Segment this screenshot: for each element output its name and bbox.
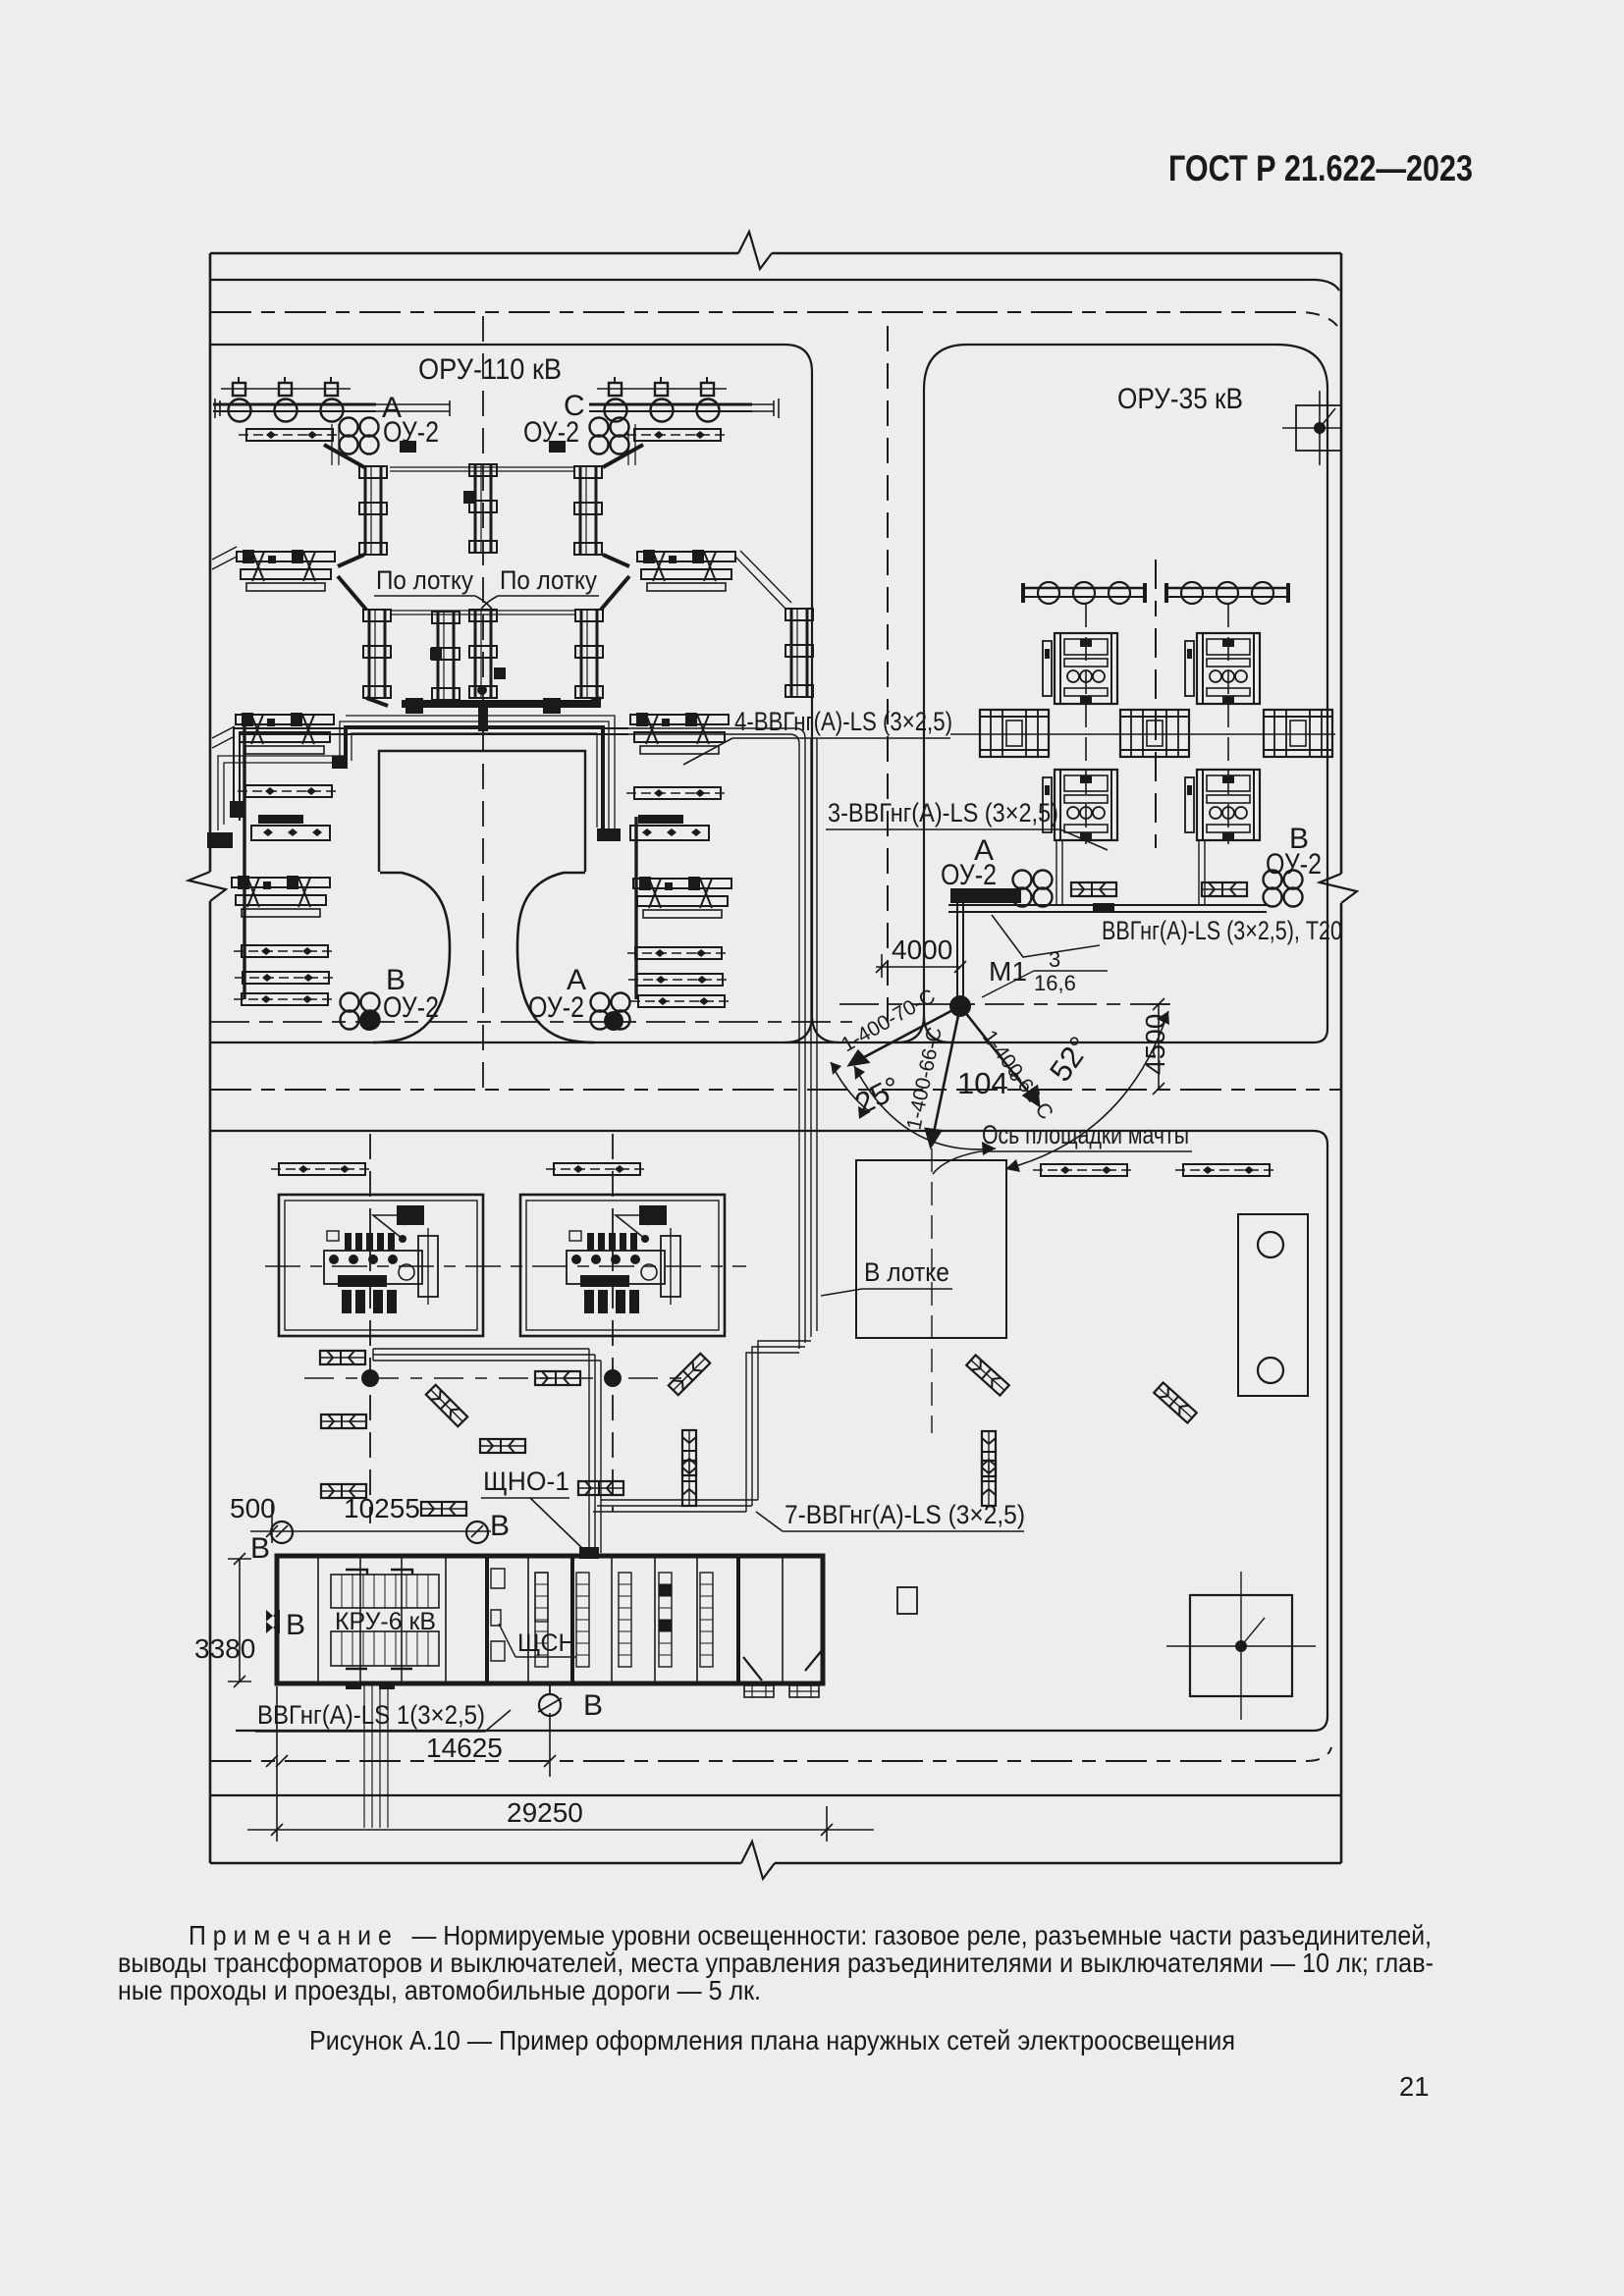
left black bar row [251, 815, 330, 840]
cable rack strip 5 [700, 1573, 713, 1667]
bottom road centerline [210, 1747, 1331, 1761]
cable rack strip 4 black cells [659, 1573, 672, 1667]
cable bundle jog to west [746, 1341, 811, 1512]
site boundary frame right [1340, 253, 1343, 1863]
luminaire OU-2 35kV right [1264, 871, 1303, 907]
luminaire axis line OU-2 row [210, 1021, 852, 1023]
tower far right column a [785, 609, 813, 697]
cable bundle to building [593, 1500, 758, 1512]
disconnector cluster upper-right [637, 550, 735, 591]
dimension 14625 ticks [266, 1713, 556, 1777]
35kV middle box east [1264, 710, 1332, 757]
right black bar row [630, 815, 709, 840]
bar above bay 2 [546, 1163, 648, 1175]
bottom road north edge [236, 1716, 1327, 1731]
cable riser B mid [466, 1522, 488, 1543]
wire cluster to tower2 left [338, 576, 366, 610]
transformer bay 1 [279, 1195, 483, 1336]
По лотку underline left [374, 596, 493, 611]
ЩНО-1 cabinet [579, 1547, 599, 1559]
riser B bottom [539, 1694, 561, 1716]
cable rack strip 2 [576, 1573, 589, 1667]
right column cluster row [633, 877, 731, 918]
wire frame tie lower-left [212, 726, 235, 748]
cable around pad thin tracks [340, 716, 615, 831]
luminaire OU-2 cluster right [590, 418, 629, 454]
junction dot bay1 [361, 1369, 379, 1387]
portal footing with circles [1238, 1214, 1308, 1396]
break mark bottom [741, 1842, 775, 1879]
foundation square with crosshair [1166, 1572, 1316, 1720]
riser tick bottom [538, 1682, 562, 1712]
luminaire vert d3 [682, 1461, 696, 1506]
disconnector cluster lower-left [236, 713, 334, 754]
disconnector cluster lower-right [630, 713, 729, 754]
svg-text:29250: 29250 [507, 1797, 583, 1828]
tower row2 right [575, 610, 603, 698]
cable tray below bays [373, 1349, 601, 1361]
building thick walls [487, 1556, 738, 1683]
35kV feeder axis right [1227, 604, 1229, 844]
svg-text:Ось площадки мачты: Ось площадки мачты [982, 1120, 1189, 1149]
trench junction box 2 [543, 698, 561, 714]
tower row1 center [469, 464, 497, 553]
luminaire OU-2 cluster left [340, 418, 379, 454]
cable 7-VVG underline and leader [756, 1512, 1024, 1531]
35kV trench drops [1056, 840, 1205, 905]
35kV breaker A2 [1043, 770, 1117, 840]
bar above bay 1 [271, 1163, 373, 1175]
junction dash line [304, 1377, 687, 1379]
luminaire h e [480, 1439, 525, 1453]
VVG T20 leader [992, 915, 1100, 957]
KRU switchgear row bottom [331, 1631, 439, 1669]
35kV middle box center [1120, 710, 1189, 757]
mast trench riser [957, 903, 963, 999]
wire frame tie upper-right [735, 551, 791, 609]
portal tie wires row1 [390, 467, 573, 471]
luminaire OU-2 35kV left [1013, 871, 1053, 907]
left cable approach lines [218, 756, 346, 830]
left trench blob [207, 832, 233, 848]
svg-text:Рисунок А.10 — Пример оформлен: Рисунок А.10 — Пример оформления плана н… [309, 2025, 1235, 2056]
mast M1 dot [949, 995, 971, 1017]
svg-text:ОУ-2: ОУ-2 [528, 991, 584, 1024]
bar below 35kV b [1175, 1164, 1277, 1176]
right column bar row2 [627, 947, 730, 959]
main cable trench bus [402, 700, 601, 708]
tower row2 outer-left [363, 610, 391, 698]
trench bar east b [1202, 882, 1247, 896]
cable VVG 1 underline leader [255, 1710, 511, 1732]
busbar left end hash [210, 399, 220, 418]
transformer bay 2 [520, 1195, 725, 1336]
svg-text:По лотку: По лотку [376, 565, 473, 595]
vertical road west edge [785, 372, 839, 1042]
junction small center [430, 648, 442, 660]
junction square center tower [463, 491, 476, 504]
break mark top [738, 232, 772, 269]
bay axis 1 [369, 1134, 371, 1523]
vertical road east edge [896, 390, 951, 1042]
road pinch arc left [373, 873, 450, 1042]
35kV breaker A1 [1043, 633, 1117, 704]
floodlight arrow 1-400-62 [960, 1006, 1039, 1105]
trench bar east a [1071, 882, 1116, 896]
svg-text:КРУ-6 кВ: КРУ-6 кВ [335, 1608, 436, 1635]
small cabinet symbol [897, 1587, 917, 1614]
building outline [277, 1556, 823, 1683]
cable trunk across to east [628, 728, 805, 744]
svg-text:4500: 4500 [1140, 1014, 1170, 1075]
svg-text:ВВГнг(А)-LS 1(3×2,5): ВВГнг(А)-LS 1(3×2,5) [257, 1700, 485, 1730]
transformer T2 [567, 1205, 680, 1313]
site boundary frame top [210, 252, 1341, 255]
middle road centerline [210, 1089, 1341, 1091]
svg-text:По лотку: По лотку [500, 565, 597, 595]
vertical road centerline [887, 326, 889, 1031]
svg-text:ОРУ-35 кВ: ОРУ-35 кВ [1117, 383, 1243, 415]
svg-text:В: В [490, 1510, 510, 1542]
top road edge line [210, 280, 1339, 291]
riser B at building wall [266, 1610, 280, 1633]
top road centerline [210, 312, 1337, 326]
cable 4-VVG underline and leader [683, 738, 950, 765]
35kV line through middle row [950, 733, 1335, 735]
wire frame tie upper-left [212, 547, 237, 569]
svg-text:ГОСТ Р 21.622—2023: ГОСТ Р 21.622—2023 [1168, 148, 1473, 188]
luminaire vert e2 [982, 1461, 996, 1506]
trench connector black [1093, 903, 1114, 913]
svg-text:21: 21 [1399, 2071, 1430, 2102]
left column bar row3 [235, 972, 337, 984]
wire bus drop left [332, 424, 635, 465]
floodlight arrow 1-400-70 [849, 1006, 960, 1065]
svg-text:ОУ-2: ОУ-2 [941, 859, 997, 891]
bar below 35kV a [1033, 1164, 1135, 1176]
svg-text:4-ВВГнг(А)-LS (3×2,5): 4-ВВГнг(А)-LS (3×2,5) [734, 707, 952, 736]
35kV bus right [1166, 582, 1288, 604]
trench junction box 1 [406, 698, 423, 714]
building partitions [318, 1556, 783, 1683]
site boundary frame bottom [210, 1862, 1341, 1865]
svg-text:3380: 3380 [194, 1633, 255, 1664]
portal tie wires row2 [390, 611, 575, 614]
angle arc 104 [854, 1066, 996, 1149]
bottom road south edge [210, 1794, 1341, 1796]
V lotke underline leader [821, 1289, 952, 1296]
svg-text:ОУ-2: ОУ-2 [1266, 848, 1322, 881]
svg-text:М1: М1 [989, 956, 1027, 987]
tower row2 mid-left [432, 612, 460, 700]
disconnector cluster upper-left [237, 550, 335, 591]
junction dot bay2 [604, 1369, 622, 1387]
luminaire h c [321, 1415, 366, 1428]
pad marks under building left [346, 1683, 395, 1689]
transformer T1 [324, 1205, 438, 1313]
right feeder cable [634, 817, 637, 999]
ЩСН cabinets [491, 1569, 505, 1661]
left column bar row4 [234, 993, 336, 1005]
svg-text:П р и м е ч а н и е — Нормир: П р и м е ч а н и е — Нормируемые уровни… [189, 1920, 1432, 1950]
tower row1 right [574, 466, 602, 555]
right column bar row3 [628, 974, 731, 986]
35kV feeder axis left [1085, 604, 1087, 844]
busbar right end hash [752, 399, 779, 418]
svg-text:выводы трансформаторов и выклю: выводы трансформаторов и выключателей, м… [118, 1948, 1434, 1978]
cable bundle east vertical [799, 738, 817, 1349]
luminaire h g [578, 1481, 623, 1495]
35kV axis [1155, 560, 1157, 848]
tower row2 center [469, 610, 497, 698]
svg-text:ОУ-2: ОУ-2 [383, 991, 439, 1024]
foundation pads below building [744, 1685, 819, 1697]
tray drop to junction [589, 1349, 601, 1553]
second bar right [626, 429, 729, 441]
left column junction [230, 801, 244, 818]
cable rack strip 1 [535, 1573, 548, 1622]
cable rack strip 3 [619, 1573, 631, 1667]
cable trunk 4-VVG left riser [234, 728, 628, 821]
svg-text:14625: 14625 [426, 1733, 503, 1763]
svg-text:4000: 4000 [892, 934, 952, 965]
junction box right [549, 441, 566, 453]
svg-text:ЩНО-1: ЩНО-1 [483, 1467, 569, 1496]
door diagonals right room [743, 1649, 823, 1681]
ЩНО-1 underline leader [481, 1498, 587, 1553]
svg-text:ВВГнг(А)-LS (3×2,5), Т20: ВВГнг(А)-LS (3×2,5), Т20 [1102, 916, 1342, 945]
svg-text:В лотке: В лотке [864, 1257, 949, 1287]
top road south edge right segment [924, 345, 1327, 1029]
right column bar row4 [630, 995, 732, 1007]
35kV breaker C2 [1185, 770, 1260, 840]
wire tower2 to bus right [579, 698, 601, 706]
junction small center2 [494, 667, 506, 679]
3-VVG underline leader [826, 829, 1108, 850]
dimension line 500/10255 [250, 1504, 491, 1543]
luminaire diag b [669, 1354, 710, 1395]
second bar left [239, 429, 341, 441]
cable blob left [332, 756, 348, 769]
cable trench black bar [950, 888, 1021, 903]
dimension 4500 [1149, 998, 1170, 1095]
luminaire diag d [1154, 1382, 1197, 1422]
cable riser B left [271, 1522, 293, 1543]
35kV middle box west [980, 710, 1049, 757]
wire tower1R to cluster right [603, 555, 629, 566]
dimension 3380 line [228, 1553, 251, 1687]
angle arc 52 [1005, 1011, 1168, 1169]
svg-text:104°: 104° [957, 1066, 1020, 1100]
svg-text:В: В [286, 1609, 305, 1641]
svg-text:10255: 10255 [344, 1493, 420, 1523]
portal busbar right (phase C) [589, 377, 752, 422]
luminaire diag a [426, 1385, 467, 1426]
luminaire OU-2 mid-right [591, 993, 630, 1030]
mast axis line [839, 1003, 1173, 1005]
svg-text:500: 500 [230, 1493, 276, 1523]
По лотку underline right [480, 596, 599, 611]
KRU switchgear row top [331, 1570, 439, 1608]
svg-text:3-ВВГнг(А)-LS (3×2,5): 3-ВВГнг(А)-LS (3×2,5) [828, 798, 1058, 828]
break mark left [189, 872, 226, 901]
mast dot mid-left [359, 1011, 379, 1031]
svg-text:В: В [583, 1689, 603, 1722]
left column bar row2 [234, 945, 336, 957]
portal busbar left (phase A) [213, 377, 376, 422]
bay axis 2 [612, 1134, 614, 1512]
luminaire pair mid [535, 1371, 580, 1385]
floodlight arrow 1-400-66 [926, 1006, 960, 1147]
cable blob right [597, 828, 621, 841]
left feeder cable [243, 720, 245, 999]
svg-text:3: 3 [1049, 947, 1060, 972]
V lotke platform rect [856, 1160, 1006, 1338]
luminaire h f [421, 1502, 466, 1516]
middle road north edge [210, 1029, 1327, 1042]
M1 fraction [982, 947, 1108, 997]
35kV trench line [948, 905, 1267, 912]
ЩСН underline leader [499, 1624, 576, 1657]
cable around pad thick [346, 727, 603, 829]
top road south edge left segment [210, 345, 812, 372]
dimension 29250 line [247, 1686, 874, 1842]
break mark right [1320, 874, 1357, 903]
left column bar row1 [238, 785, 340, 797]
luminaire h below bay1 [320, 1351, 365, 1364]
wire portal to tower right [603, 445, 643, 467]
cable exit lines below building [364, 1683, 388, 1828]
tower row1 left [359, 466, 387, 555]
site boundary frame left [209, 253, 212, 1863]
svg-text:ОРУ-110 кВ: ОРУ-110 кВ [418, 353, 562, 386]
svg-text:16,6: 16,6 [1034, 971, 1076, 995]
mast dot mid-right [604, 1011, 623, 1031]
wire cluster to tower2 right [601, 576, 629, 610]
luminaire OU-2 mid-left [341, 993, 380, 1030]
luminaire diag c [966, 1355, 1009, 1395]
bay centerline [265, 1265, 746, 1267]
left column cluster row [232, 876, 330, 917]
busbar extension to A label [376, 400, 450, 416]
junction box left [400, 441, 416, 453]
axis 110kV center [482, 316, 484, 1088]
wire portal to tower left [324, 445, 364, 467]
road pinch arc right [517, 873, 594, 1042]
trench stub center [478, 700, 488, 731]
mast axis underline [933, 1151, 1192, 1174]
luminaire vert e [982, 1431, 996, 1476]
V lotke axis [931, 1148, 933, 1433]
angle arc 25 [831, 1062, 870, 1112]
luminaire h d [321, 1484, 366, 1498]
luminaire vert d2 [682, 1430, 696, 1475]
right column bar row1 [626, 787, 729, 799]
pole symbol top right [1282, 391, 1341, 465]
svg-text:ные проходы и проезды, автомоб: ные проходы и проезды, автомобильные дор… [118, 1975, 761, 2005]
svg-text:В: В [250, 1532, 270, 1565]
axis dot above bus [477, 685, 487, 695]
equipment pad rectangle [379, 751, 585, 872]
35kV bus left [1023, 582, 1145, 604]
middle road south edge [210, 1131, 1327, 1716]
wire tower2 to bus left [366, 698, 388, 706]
dimension 4000 line [876, 954, 966, 978]
35kV breaker C1 [1185, 633, 1260, 704]
wire tower1L to cluster left [338, 555, 364, 566]
